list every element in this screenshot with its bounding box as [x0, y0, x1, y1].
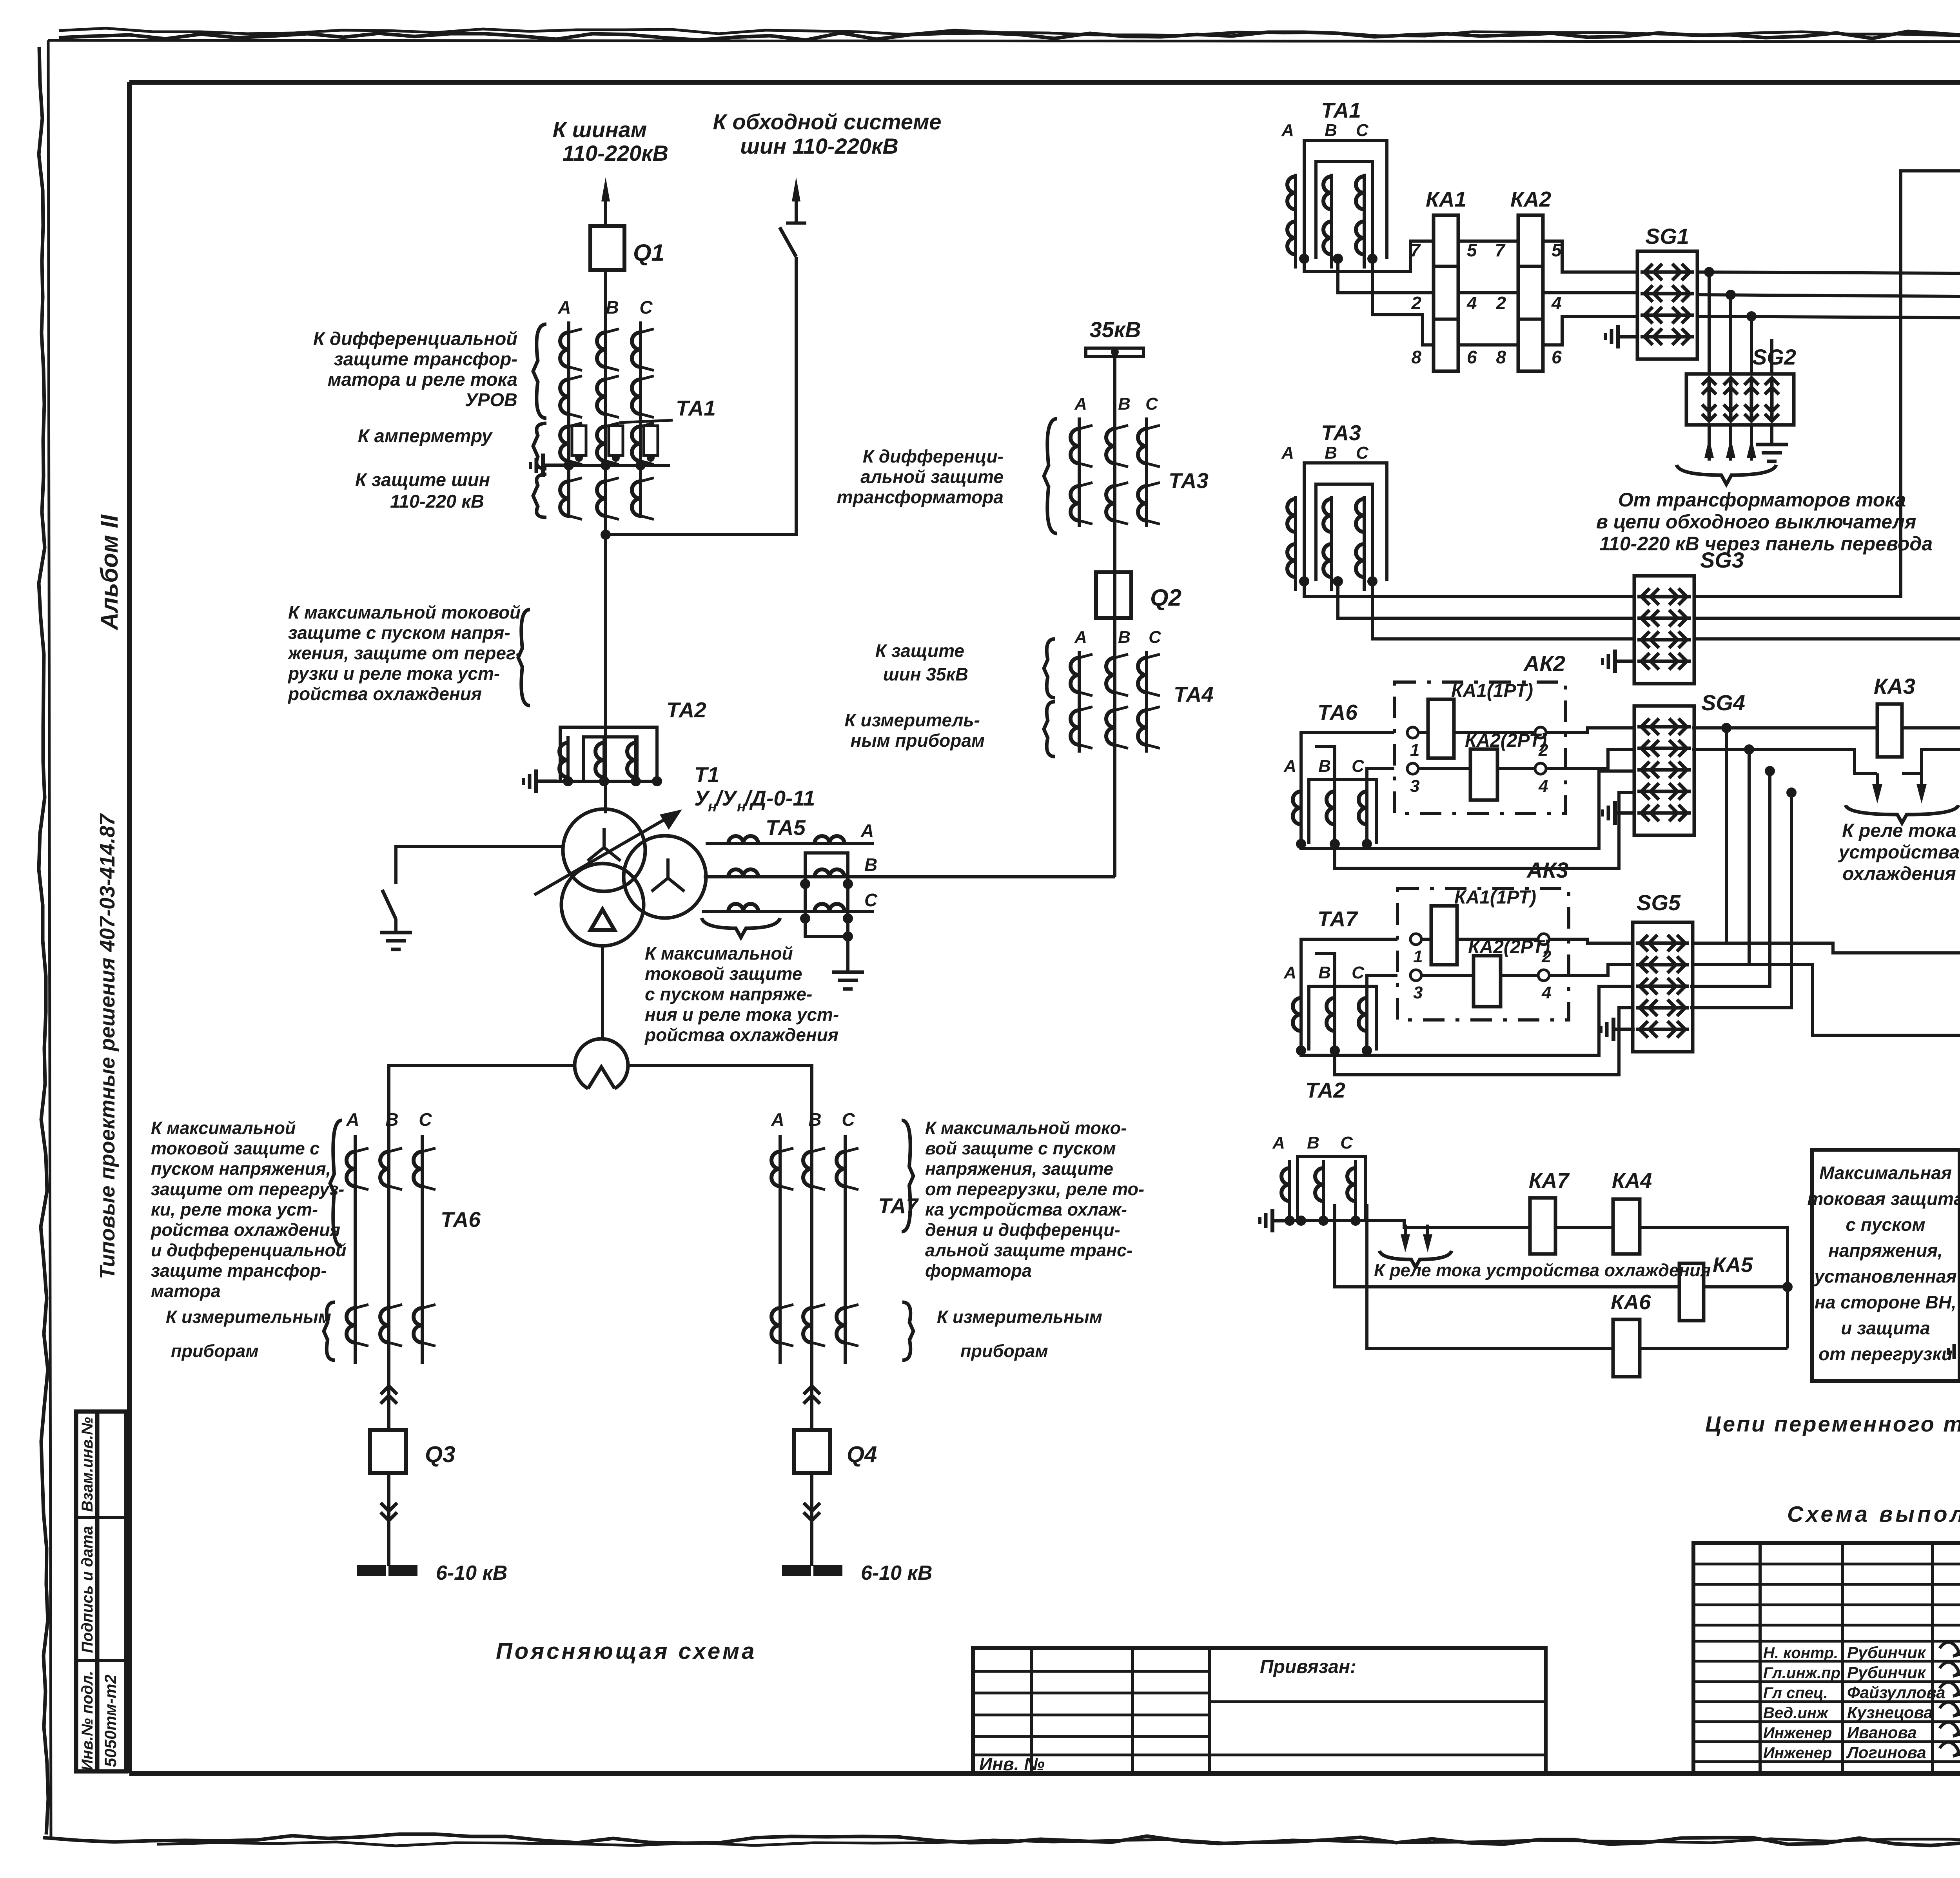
- svg-text:7: 7: [1495, 240, 1506, 260]
- CT TA7 row2 C: [837, 1305, 858, 1346]
- caption TA6 measuring: [166, 1307, 331, 1361]
- svg-text:С: С: [1145, 394, 1158, 414]
- svg-text:ТА6: ТА6: [441, 1207, 481, 1232]
- svg-text:6-10 кВ: 6-10 кВ: [861, 1562, 932, 1584]
- svg-text:ТА2: ТА2: [666, 698, 706, 722]
- svg-text:КА1(1РТ): КА1(1РТ): [1454, 887, 1536, 908]
- label KA6: [1611, 1290, 1651, 1314]
- caption inv no: [979, 1754, 1045, 1774]
- svg-text:Иванова: Иванова: [1847, 1723, 1917, 1742]
- svg-text:с пуском напряже-: с пуском напряже-: [645, 984, 812, 1004]
- svg-text:ТА5: ТА5: [766, 815, 806, 840]
- svg-text:альной защите транс-: альной защите транс-: [925, 1240, 1132, 1260]
- caption to bypass system: [713, 109, 941, 158]
- CT TA3 row2 B: [1106, 483, 1128, 524]
- phase line TA4 A: [1078, 651, 1081, 753]
- CT TA2 phase C: [627, 736, 636, 781]
- CT TA3 row1 B: [1106, 425, 1128, 467]
- svg-text:А: А: [860, 820, 874, 841]
- CT group TA7 secondary: [1283, 907, 1377, 1056]
- svg-text:Цепи переменного тока: Цепи переменного тока: [1705, 1412, 1960, 1436]
- earthing switch: [380, 847, 563, 949]
- svg-text:ТА7: ТА7: [878, 1194, 919, 1218]
- svg-text:ройства охлаждения: ройства охлаждения: [644, 1025, 838, 1045]
- T1 HV star symbol: [588, 828, 621, 861]
- svg-text:Схема выполнена на листах: Схема выполнена на листах 21,22,23,24: [1787, 1502, 1960, 1527]
- wire KA2 to SG1 row1: [1543, 241, 1637, 272]
- chevron up Q3: [381, 1384, 397, 1429]
- svg-text:Н. контр.: Н. контр.: [1763, 1644, 1838, 1662]
- TA2 ground wire: [544, 780, 657, 783]
- wire TA1b to KA1 pin2: [1338, 259, 1434, 293]
- svg-text:А: А: [771, 1109, 784, 1130]
- TA2 loop box: [560, 727, 657, 781]
- ammeter common wire: [551, 460, 670, 470]
- phase labels TA1: [557, 297, 653, 318]
- svg-text:ка устройства охлаж-: ка устройства охлаж-: [925, 1199, 1127, 1219]
- chevron up Q4: [804, 1384, 820, 1429]
- label KA3: [1874, 674, 1915, 699]
- svg-text:5: 5: [1552, 240, 1562, 260]
- svg-text:АК2: АК2: [1523, 651, 1565, 676]
- phase line C: [639, 321, 642, 518]
- test block SG2: [1686, 374, 1794, 425]
- svg-text:А: А: [1281, 443, 1294, 463]
- wire SG4r1 down to SG5r1: [1692, 728, 1726, 943]
- svg-text:с пуском: с пуском: [1846, 1214, 1925, 1235]
- CT TA4 row1 A: [1071, 654, 1093, 696]
- label Q3: [425, 1442, 455, 1467]
- arrow KA3b down: [1916, 773, 1927, 804]
- LV wire left: [389, 1065, 575, 1137]
- wire KA2 to SG1 row2: [1543, 293, 1637, 295]
- breaker Q2: [1096, 572, 1131, 618]
- phase line TA6 C: [421, 1135, 424, 1364]
- margin caption tipovye: [96, 813, 119, 1279]
- ground SG1: [1606, 325, 1639, 348]
- svg-text:ТА1: ТА1: [1321, 98, 1361, 122]
- svg-text:8: 8: [1496, 347, 1506, 367]
- wire SG4r3 down to SG5r3: [1690, 771, 1770, 986]
- wire TA2r ground line: [1280, 1216, 1306, 1226]
- brace TA7 main: [902, 1120, 913, 1232]
- svg-text:К дифференциальной: К дифференциальной: [313, 328, 517, 349]
- svg-text:альной защите: альной защите: [860, 466, 1004, 487]
- svg-text:110-220 кВ: 110-220 кВ: [390, 491, 484, 512]
- svg-text:А: А: [346, 1109, 359, 1130]
- svg-text:Т1: Т1: [694, 762, 719, 787]
- wire KA5 line: [1335, 1204, 1679, 1287]
- wire SG4r1 to KA3: [1692, 726, 1877, 729]
- CT busprot phase C: [632, 478, 654, 519]
- svg-text:К измерительным: К измерительным: [166, 1307, 331, 1327]
- svg-text:А: А: [1074, 394, 1087, 414]
- LV split symbol: [575, 1039, 628, 1089]
- CT group TA3 secondary: [1281, 421, 1387, 591]
- svg-text:рузки и реле тока уст-: рузки и реле тока уст-: [287, 663, 500, 684]
- svg-text:Q2: Q2: [1150, 584, 1181, 611]
- CT TA1 row2 phase A: [560, 376, 582, 417]
- svg-text:охлаждения: охлаждения: [1842, 864, 1956, 884]
- svg-text:В: В: [808, 1109, 821, 1130]
- wire KA5 right: [1704, 1282, 1793, 1292]
- CT TA7 row1 A: [771, 1148, 793, 1190]
- bypass arrow up: [786, 177, 806, 223]
- caption TA6 protections: [151, 1118, 347, 1301]
- CT TA3 row1 C: [1138, 425, 1160, 467]
- CT TA3 row1 A: [1071, 425, 1093, 467]
- CT TA1 row2 phase C: [632, 376, 654, 417]
- brace ammeter: [533, 423, 546, 469]
- CT ammeter phase C: [632, 423, 658, 465]
- svg-text:С: С: [419, 1109, 432, 1130]
- svg-text:ройства охлаждения: ройства охлаждения: [151, 1220, 340, 1240]
- transformer T1 HV winding: [563, 809, 645, 891]
- label 6-10kV right: [861, 1562, 932, 1584]
- wires SG1 rows to SG2: [1709, 272, 1772, 374]
- wire SG4r2 down to SG5r2: [1692, 749, 1749, 965]
- wire SG3r1 up to KAW1 pin2: [1695, 171, 1960, 597]
- wire TA1c to KA1 pin8: [1372, 259, 1434, 345]
- svg-text:С: С: [1352, 757, 1365, 776]
- CT TA3 row2 A: [1071, 483, 1093, 524]
- SG2 output arrows: [1704, 425, 1756, 461]
- caption sheets: [1787, 1502, 1960, 1527]
- svg-text:ТА3: ТА3: [1169, 468, 1209, 493]
- caption ammeter: [358, 425, 493, 446]
- svg-text:/У: /У: [715, 786, 738, 810]
- caption MTZ VN: [1807, 1163, 1960, 1364]
- svg-text:С: С: [1352, 963, 1365, 982]
- svg-text:3: 3: [1410, 777, 1419, 796]
- wire T1 LV down: [601, 946, 604, 1040]
- brace TA1 group1: [533, 324, 546, 418]
- paper edge line top: [48, 40, 1960, 42]
- breaker Q1: [590, 226, 624, 270]
- CT busprot phase A: [560, 478, 582, 519]
- ground SG5: [1601, 1018, 1635, 1041]
- svg-text:Инв.№ подл.: Инв.№ подл.: [79, 1671, 96, 1771]
- svg-text:6: 6: [1467, 347, 1477, 367]
- CT busprot phase B: [597, 478, 619, 519]
- ground SG4: [1602, 801, 1636, 825]
- wire TA3a to SG3 row1: [1304, 581, 1634, 597]
- CT TA1 row1 phase B: [597, 329, 619, 370]
- phase labels TA3: [1074, 394, 1158, 414]
- svg-text:матора: матора: [151, 1281, 221, 1301]
- SG2 arrows col2: [1724, 378, 1738, 421]
- breaker Q4: [794, 1430, 830, 1473]
- label TA7: [878, 1194, 919, 1218]
- torn paper edge left: [39, 47, 48, 1834]
- label 35kV: [1089, 317, 1141, 342]
- LV wire right: [628, 1065, 812, 1137]
- svg-text:С: С: [1149, 628, 1161, 647]
- caption 35kV bus prot: [875, 641, 968, 684]
- svg-text:К реле тока: К реле тока: [1842, 820, 1956, 841]
- wire SG4r2 to KAW3 pin1: [1692, 749, 1877, 773]
- test block SG4: [1634, 690, 1745, 835]
- wire 35kV bus down: [1113, 357, 1116, 877]
- wire TA7 A to AK3 pin1: [1301, 939, 1397, 990]
- svg-text:КА3: КА3: [1874, 674, 1915, 699]
- svg-text:ния и реле тока уст-: ния и реле тока уст-: [645, 1004, 839, 1025]
- svg-text:от перегрузки: от перегрузки: [1818, 1344, 1953, 1364]
- relay KA6: [1613, 1319, 1640, 1377]
- relay KA7: [1530, 1198, 1555, 1254]
- svg-text:С: С: [842, 1109, 855, 1130]
- brace KA3 arrows: [1846, 805, 1958, 823]
- svg-text:установленная: установленная: [1813, 1266, 1956, 1286]
- svg-text:защите с пуском напря-: защите с пуском напря-: [288, 622, 510, 643]
- bus 6-10kV right: [784, 1567, 841, 1575]
- svg-text:В: В: [1118, 628, 1131, 647]
- arrow KA3a down: [1872, 773, 1882, 804]
- svg-text:В: В: [385, 1109, 398, 1130]
- label KA5: [1713, 1253, 1753, 1277]
- phase line TA7 C: [844, 1135, 847, 1364]
- svg-text:токовой защите: токовой защите: [645, 963, 802, 984]
- wire KA3 to KAW3 pin2: [1902, 728, 1960, 798]
- svg-text:ТА7: ТА7: [1318, 907, 1358, 931]
- wire SG1r3 to KAW2 pin1: [1697, 316, 1960, 578]
- svg-text:шин 110-220кВ: шин 110-220кВ: [740, 134, 898, 158]
- test block SG3: [1634, 548, 1744, 684]
- svg-text:шин 35кВ: шин 35кВ: [883, 664, 968, 684]
- svg-text:К максимальной токовой: К максимальной токовой: [288, 602, 521, 622]
- label SG2: [1752, 345, 1796, 369]
- label T1 type: [694, 786, 815, 815]
- caption MTZ left: [287, 602, 522, 704]
- CT TA4 row2 A: [1071, 707, 1093, 748]
- svg-text:ТА2: ТА2: [1305, 1078, 1345, 1102]
- svg-text:Гл.инж.пр: Гл.инж.пр: [1763, 1664, 1840, 1682]
- TA5 secondary box: [805, 853, 848, 936]
- svg-text:4: 4: [1538, 777, 1548, 796]
- transformer T1 LV winding: [561, 864, 644, 946]
- title signature names: [1763, 1643, 1945, 1762]
- svg-text:5: 5: [1467, 240, 1477, 260]
- svg-text:SG1: SG1: [1645, 224, 1689, 249]
- label KA7: [1529, 1169, 1570, 1192]
- svg-text:В: В: [1307, 1133, 1319, 1152]
- phase line TA3 C: [1145, 417, 1148, 527]
- T1 delta symbol: [591, 909, 614, 930]
- svg-text:С: С: [1340, 1133, 1353, 1152]
- svg-text:КА1: КА1: [1426, 187, 1466, 211]
- svg-text:Кузнецова: Кузнецова: [1847, 1703, 1933, 1722]
- caption diff prot 35: [837, 446, 1004, 507]
- svg-text:приборам: приборам: [171, 1341, 259, 1361]
- SG2 arrows col3: [1744, 378, 1759, 421]
- phase labels TA6: [346, 1109, 432, 1130]
- svg-text:А: А: [1074, 628, 1087, 647]
- svg-text:ТА6: ТА6: [1318, 700, 1357, 724]
- wire KA1-KA2 bot: [1458, 343, 1518, 347]
- svg-text:8: 8: [1411, 347, 1421, 367]
- CT TA5 C: [728, 904, 758, 911]
- breaker Q3: [370, 1430, 406, 1473]
- svg-text:SG5: SG5: [1637, 890, 1681, 915]
- wire AK3 pin2 to SG5 row1: [1549, 939, 1633, 943]
- phase line TA3 A: [1078, 417, 1081, 527]
- svg-text:4: 4: [1551, 293, 1562, 313]
- transformer T1 MV winding: [624, 836, 706, 918]
- svg-text:4: 4: [1541, 983, 1551, 1002]
- wire TA3b to SG3 row2: [1338, 581, 1634, 618]
- wire SG5r2 to ground bus: [1749, 965, 1960, 1035]
- wire AK3 pin4 to SG5 row2: [1549, 965, 1633, 975]
- wire TA6 return1 to SG4 row3: [1301, 771, 1634, 849]
- test block SG5: [1633, 890, 1693, 1052]
- caption to buses 110-220kV: [553, 117, 668, 165]
- caption from bypass CTs: [1596, 489, 1933, 555]
- wire TA3c to SG3 row3: [1372, 581, 1634, 639]
- wire TA6 B stub: [1315, 747, 1335, 784]
- CT TA7 row2 A: [771, 1305, 793, 1346]
- SG2 ground: [1756, 425, 1788, 461]
- phase labels TA4: [1074, 628, 1161, 647]
- svg-text:ройства охлаждения: ройства охлаждения: [287, 684, 482, 704]
- svg-text:SG2: SG2: [1752, 345, 1796, 369]
- caption MTZ MV: [644, 943, 839, 1045]
- brace TA6 meas: [324, 1302, 335, 1360]
- svg-text:Альбом II: Альбом II: [96, 514, 123, 631]
- svg-text:К амперметру: К амперметру: [358, 425, 493, 446]
- caption TA7 protections: [925, 1118, 1144, 1281]
- phase labels TA5: [860, 820, 878, 910]
- svg-text:Привязан:: Привязан:: [1260, 1657, 1356, 1677]
- svg-text:Поясняющая схема: Поясняющая схема: [496, 1638, 757, 1664]
- CT TA2 phase B: [595, 736, 604, 781]
- CT TA7 row2 B: [803, 1305, 825, 1346]
- CT TA1 row2 phase B: [597, 376, 619, 417]
- svg-text:А: А: [1272, 1133, 1285, 1152]
- label Q1: [633, 240, 664, 266]
- svg-text:Q3: Q3: [425, 1442, 455, 1467]
- label TA1 left: [619, 396, 716, 423]
- bus 6-10kV left: [359, 1567, 416, 1575]
- svg-text:напряжения, защите: напряжения, защите: [925, 1159, 1113, 1179]
- svg-text:В: В: [1318, 757, 1331, 776]
- bypass wire: [606, 257, 796, 535]
- ground ammeter line: [530, 454, 564, 477]
- bus 35kV: [1086, 348, 1143, 357]
- wire KA7-KA4: [1555, 1226, 1613, 1229]
- brace TA6 main: [330, 1120, 342, 1247]
- svg-text:К максимальной: К максимальной: [645, 943, 793, 963]
- ground TA2r: [1260, 1209, 1294, 1232]
- phase line TA6 B: [387, 1137, 390, 1384]
- label KA4: [1612, 1169, 1652, 1192]
- svg-text:Инженер: Инженер: [1763, 1724, 1832, 1742]
- svg-text:6-10 кВ: 6-10 кВ: [436, 1562, 507, 1584]
- CT TA2 phase A: [559, 736, 568, 781]
- CT TA1 row1 phase A: [560, 329, 582, 370]
- svg-text:КА7: КА7: [1529, 1169, 1570, 1192]
- brace MTZ: [518, 610, 530, 706]
- brace TA7 meas: [902, 1302, 913, 1360]
- brace busprot: [533, 474, 546, 517]
- svg-text:К защите шин: К защите шин: [355, 469, 490, 490]
- svg-text:1: 1: [1410, 740, 1419, 760]
- svg-text:и защита: и защита: [1841, 1318, 1930, 1338]
- bus arrow up: [601, 177, 610, 225]
- junction dots SG4 rows: [1721, 723, 1797, 798]
- wire TA6 return2 to SG4 row4: [1335, 793, 1634, 868]
- wire AK2 pin4 to SG4 row2: [1546, 749, 1634, 769]
- svg-text:напряжения,: напряжения,: [1828, 1240, 1943, 1261]
- relay KA5: [1679, 1263, 1704, 1321]
- svg-text:4: 4: [1466, 293, 1477, 313]
- CT TA3 row2 C: [1138, 483, 1160, 524]
- svg-text:вой защите с пуском: вой защите с пуском: [925, 1138, 1116, 1158]
- svg-text:форматора: форматора: [925, 1261, 1032, 1281]
- caption AC circuits: [1705, 1412, 1960, 1436]
- chevron down Q4: [804, 1473, 820, 1566]
- CT TA5 A: [728, 836, 758, 844]
- svg-text:7: 7: [1410, 240, 1421, 260]
- svg-text:АК3: АК3: [1526, 858, 1568, 882]
- T1 MV star symbol: [652, 858, 684, 891]
- svg-text:/Д-0-11: /Д-0-11: [744, 786, 815, 810]
- brace TA3: [1044, 419, 1057, 533]
- wire TA7 return1 to SG5 row3: [1301, 986, 1633, 1055]
- label TA2: [666, 698, 706, 722]
- CT TA5 B: [728, 869, 758, 877]
- stamp boxes: [76, 1412, 126, 1771]
- svg-text:УРОВ: УРОВ: [465, 389, 517, 410]
- svg-text:Q4: Q4: [847, 1442, 877, 1467]
- phase line TA4 C: [1145, 651, 1148, 753]
- wire Q1 to CT section: [604, 270, 607, 813]
- phase line TA6 A: [354, 1135, 357, 1364]
- CT TA4 row1 B: [1106, 654, 1128, 696]
- wire KA2 to SG1 row3: [1543, 316, 1637, 345]
- svg-text:2: 2: [1495, 293, 1506, 313]
- text box MTZ VN: [1812, 1150, 1960, 1381]
- svg-text:С: С: [864, 890, 878, 910]
- svg-text:трансформатора: трансформатора: [837, 487, 1004, 507]
- junction bypass: [601, 530, 611, 540]
- ground SG3: [1602, 650, 1636, 673]
- svg-text:В: В: [1118, 394, 1131, 414]
- svg-text:КА1(1РТ): КА1(1РТ): [1451, 680, 1533, 701]
- relay group AK3: [1397, 858, 1569, 1020]
- CT TA4 row1 C: [1138, 654, 1160, 696]
- wire SG1r2 to KAW2 pin2: [1697, 295, 1960, 473]
- svg-text:Типовые проектные решени: Типовые проектные решения 407-03-414.87: [96, 813, 119, 1279]
- svg-text:и дифференциальной: и дифференциальной: [151, 1240, 347, 1260]
- title signatures table: [1693, 1543, 1960, 1773]
- label TA5: [766, 815, 806, 840]
- svg-text:токовой защите с: токовой защите с: [151, 1138, 319, 1158]
- svg-text:ки, реле тока уст-: ки, реле тока уст-: [151, 1199, 318, 1219]
- svg-text:С: С: [1356, 443, 1369, 463]
- wire TA2r A down: [1288, 1219, 1291, 1222]
- CT TA6 row2 B: [380, 1305, 402, 1346]
- wire SG4r2b: [1902, 749, 1960, 906]
- torn paper edge top: [59, 28, 1960, 40]
- svg-text:Файзуллова: Файзуллова: [1847, 1683, 1945, 1702]
- CT group TA2 secondary: [1272, 1078, 1365, 1226]
- svg-text:К дифференци-: К дифференци-: [863, 446, 1004, 466]
- T1 regulation arrow: [534, 809, 682, 895]
- svg-text:35кВ: 35кВ: [1089, 317, 1141, 342]
- CT TA6 row1 B: [380, 1148, 402, 1190]
- CT TA7 row1 B: [803, 1148, 825, 1190]
- svg-text:ТА4: ТА4: [1174, 682, 1214, 706]
